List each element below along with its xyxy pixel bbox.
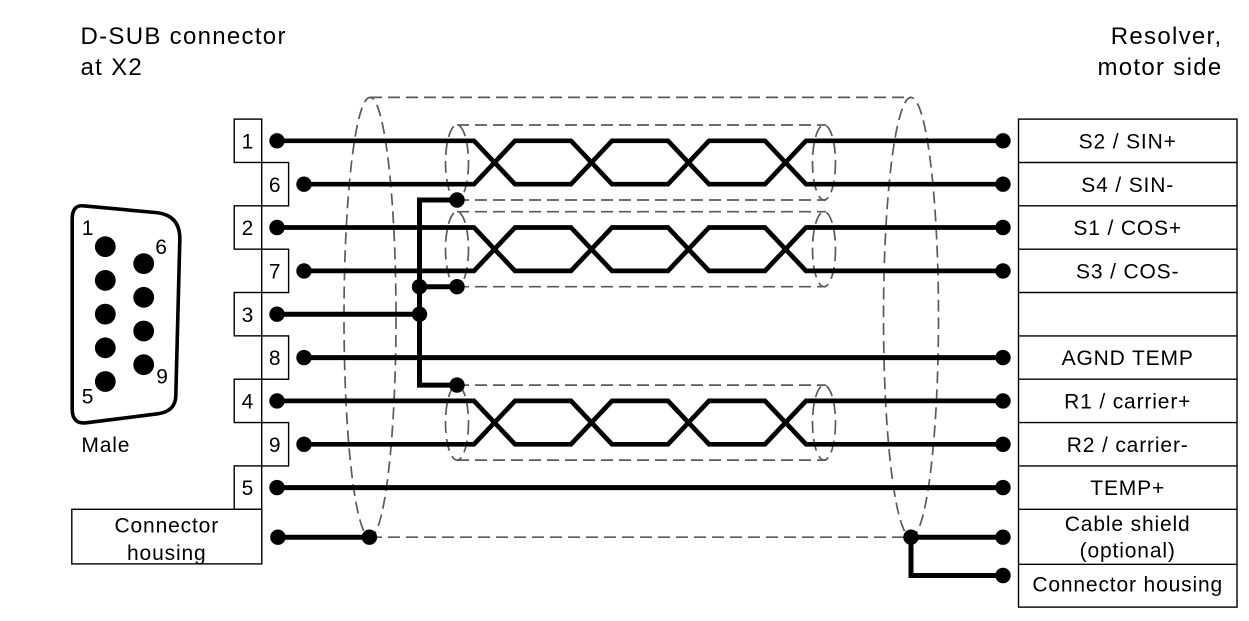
- svg-text:1: 1: [82, 217, 95, 240]
- svg-text:9: 9: [269, 434, 282, 457]
- svg-text:4: 4: [242, 391, 255, 414]
- svg-text:5: 5: [242, 477, 255, 500]
- svg-text:Cable shield: Cable shield: [1065, 513, 1191, 536]
- svg-text:AGND TEMP: AGND TEMP: [1062, 347, 1194, 370]
- svg-text:(optional): (optional): [1080, 540, 1176, 563]
- svg-text:housing: housing: [127, 542, 207, 565]
- svg-text:Male: Male: [81, 434, 130, 457]
- svg-text:6: 6: [269, 174, 282, 197]
- svg-text:9: 9: [156, 366, 169, 389]
- svg-text:5: 5: [82, 386, 95, 409]
- svg-text:at X2: at X2: [81, 54, 144, 81]
- svg-text:Connector housing: Connector housing: [1032, 574, 1223, 597]
- svg-text:3: 3: [242, 304, 255, 327]
- svg-text:S3 / COS-: S3 / COS-: [1076, 261, 1179, 284]
- svg-text:S2 / SIN+: S2 / SIN+: [1079, 130, 1177, 153]
- svg-text:TEMP+: TEMP+: [1090, 477, 1165, 500]
- svg-text:R2 / carrier-: R2 / carrier-: [1067, 434, 1189, 457]
- svg-text:S4 / SIN-: S4 / SIN-: [1081, 174, 1174, 197]
- svg-text:6: 6: [155, 236, 168, 259]
- svg-text:Connector: Connector: [115, 514, 220, 537]
- svg-text:2: 2: [242, 217, 255, 240]
- svg-text:R1 / carrier+: R1 / carrier+: [1064, 391, 1191, 414]
- svg-text:Resolver,: Resolver,: [1111, 23, 1223, 50]
- svg-text:S1 / COS+: S1 / COS+: [1073, 217, 1182, 240]
- svg-text:7: 7: [269, 261, 282, 284]
- svg-text:8: 8: [269, 347, 282, 370]
- svg-text:motor side: motor side: [1097, 54, 1222, 81]
- svg-text:D-SUB connector: D-SUB connector: [81, 23, 287, 50]
- svg-text:1: 1: [242, 130, 255, 153]
